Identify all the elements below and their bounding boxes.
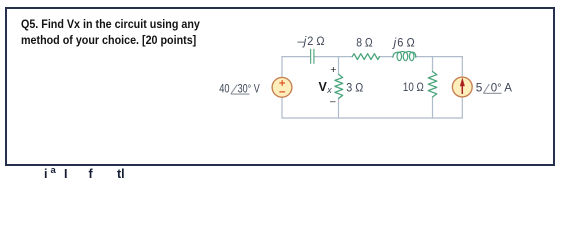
current source arrow [460,78,464,93]
svg-text:40: 40 [219,82,230,96]
wire left branch lower [281,97,283,118]
svg-text:5: 5 [476,81,483,95]
inductor L j6 ohm coil [393,52,416,61]
resistor R 10 ohm zigzag [428,72,437,98]
wire top segment 8ohm to inductor [380,56,394,58]
wire 10ohm branch upper [432,57,434,72]
wire 3ohm branch lower [338,98,340,118]
wire right branch upper [461,57,463,78]
wire 3ohm branch upper [338,57,340,75]
wire bottom rail [282,117,462,119]
partial clipped text at bottom edge [44,167,47,181]
svg-text:3 Ω: 3 Ω [346,80,363,94]
wire top segment capacitor to 8ohm resistor [314,56,352,58]
svg-text:j: j [392,36,397,50]
svg-text:2 Ω: 2 Ω [307,34,325,48]
wire 10ohm branch lower [432,97,434,118]
label 40 angle 30 V source value [219,82,260,96]
svg-text:6 Ω: 6 Ω [397,36,415,50]
wire left branch upper [281,57,283,78]
resistor R 3 ohm zigzag [335,75,343,99]
voltage source VS circle [272,77,292,97]
wire top segment inductor to current source branch [416,56,462,58]
svg-text:10 Ω: 10 Ω [403,80,424,94]
svg-text:–: – [330,96,336,107]
resistor R 8 ohm zigzag [352,54,379,60]
voltage source plus sign [280,81,285,92]
svg-text:0° A: 0° A [491,81,512,95]
svg-text:Vx: Vx [319,80,333,95]
current source IS circle [452,77,472,97]
label 5 angle 0 A source value [476,81,512,95]
voltage source minus sign [280,91,285,93]
wire top segment from source to capacitor [282,56,310,58]
svg-text:+: + [330,64,336,76]
svg-text:30° V: 30° V [238,82,260,96]
svg-text:8 Ω: 8 Ω [356,36,373,50]
capacitor C -j2 ohm plates [311,49,314,63]
wire right branch lower [461,97,463,118]
